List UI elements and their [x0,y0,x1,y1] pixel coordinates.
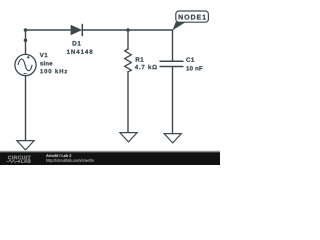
NODE1 label [179,15,206,20]
V1 minus sign [24,73,27,75]
CircuitLab logo CIRCUIT [8,156,31,160]
diode D1 cathode bar [81,24,83,36]
V1 plus sign [27,56,30,59]
resistor R1 zigzag [125,49,132,72]
capacitor C1 bottom plate [160,66,184,68]
wire rail to R1 top [127,30,129,49]
NODE1 flag pointer [173,22,186,30]
node terminal dot on V1 top wire [24,39,28,43]
R1 label [136,57,144,61]
CircuitLab logo zigzag [7,160,19,163]
node junction dot rail/R1 [126,28,130,32]
node junction dot at top-left corner [24,28,28,32]
voltage source V1 circle [15,54,36,75]
footer bar [0,153,220,165]
ground under C1 [164,134,181,143]
wire diode cathode to top-right corner [83,29,173,31]
wire V1 top to rail [25,30,27,55]
C1 value 10 nF [186,66,202,70]
D1 label [73,41,81,45]
R1 value 4.7 kOhm [135,65,157,69]
ground under V1 [17,141,34,150]
V1 value 100 kHz [40,69,67,73]
footer title Arnold / Lab 2 [46,154,71,157]
C1 label [186,57,194,61]
diode D1 triangle [71,25,81,34]
footer bar fade [0,150,220,153]
CircuitLab logo mark [18,160,20,162]
wire corner to C1 top plate [172,30,174,61]
capacitor C1 top plate [160,60,184,62]
ground under R1 [120,133,137,142]
CircuitLab logo LAB [21,159,30,162]
wire V1 bottom to left ground [25,76,27,141]
footer url [46,159,94,163]
V1 value sine [40,61,52,65]
wire top rail from V1 corner to diode anode [26,29,71,31]
wire C1 bottom plate to ground [172,67,174,134]
V1 label [40,53,48,57]
wire R1 bottom to ground [127,72,129,133]
D1 value 1N4148 [67,50,93,54]
V1 sine wave [18,59,32,71]
NODE1 flag box [176,11,209,22]
